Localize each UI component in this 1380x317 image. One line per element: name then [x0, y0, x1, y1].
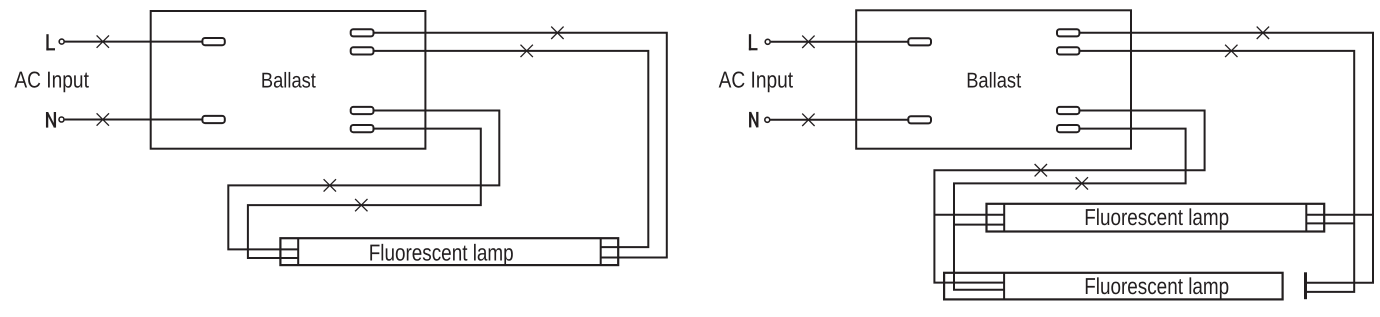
wire-nut X on wire B (left diagram) [521, 45, 533, 57]
node L (input terminal circle, left diagram) [59, 39, 64, 44]
wire D out4 down to lamp2 left pin2 (right diagram) [954, 129, 1186, 290]
fluorescent lamp tube (left diagram) [280, 238, 618, 265]
wire-nut X on wire D (left diagram) [355, 199, 367, 211]
wire-nut X on N wire (right diagram) [802, 114, 814, 126]
lamp right end-cap line (left diagram) [600, 238, 602, 265]
svg-text:Fluorescent lamp: Fluorescent lamp [1084, 204, 1229, 230]
terminal pill out3 (right diagram) [1057, 107, 1079, 114]
svg-text:Fluorescent lamp: Fluorescent lamp [369, 240, 514, 266]
terminal pill N input (left diagram) [202, 116, 224, 123]
svg-text:Ballast: Ballast [966, 69, 1021, 93]
wire D tap to lamp1 left pin2 (right diagram) [954, 224, 1004, 226]
wire A out1 down right side to lamp2 right pin1 (right diagram) [1079, 33, 1373, 283]
terminal pill L input (right diagram) [908, 38, 931, 45]
terminal pill N input (right diagram) [908, 116, 931, 123]
wire-nut X on wire B (right diagram) [1225, 45, 1237, 57]
fluorescent lamp 1 tube (right diagram) [987, 204, 1325, 232]
terminal pill out1 (right diagram) [1057, 29, 1079, 36]
wire L input (right diagram) [771, 41, 909, 43]
label L (right diagram) [749, 34, 758, 50]
wire B out2 to lamp right pin1 (left diagram) [374, 51, 649, 247]
wire-nut X on wire A (right diagram) [1257, 27, 1269, 39]
terminal pill out2 (right diagram) [1057, 47, 1079, 54]
wire C out3 to lamp left pin1 (left diagram) [228, 111, 499, 250]
terminal pill out4 (left diagram) [351, 125, 374, 132]
ballast box (left diagram) [151, 11, 426, 149]
wire-nut X on wire C (right diagram) [1035, 164, 1047, 176]
terminal pill out2 (left diagram) [351, 47, 374, 54]
lamp left end-cap line (left diagram) [297, 238, 299, 265]
svg-text:Fluorescent lamp: Fluorescent lamp [1084, 273, 1229, 299]
lamp1 left end-cap line (right diagram) [1003, 204, 1005, 232]
wire A tap to lamp1 right pin1 (right diagram) [1306, 214, 1373, 216]
wire B tap to lamp1 right pin2 (right diagram) [1306, 222, 1354, 224]
lamp2 right electrode bar (right diagram) [1304, 272, 1307, 299]
wire C out3 down left side to lamp2 left pin1 (right diagram) [934, 111, 1204, 283]
lamp2 left end-cap line (right diagram) [1003, 273, 1005, 300]
label N (right diagram) [750, 112, 757, 128]
wire-nut X on L wire (right diagram) [802, 36, 814, 48]
ballast box (right diagram) [856, 10, 1131, 148]
svg-text:AC Input: AC Input [719, 66, 794, 92]
node L (input terminal circle, right diagram) [765, 39, 770, 44]
wire B out2 down to lamp2 right pin2 (right diagram) [1079, 51, 1354, 292]
terminal pill out1 (left diagram) [351, 29, 374, 36]
terminal pill out4 (right diagram) [1057, 125, 1079, 132]
wire-nut X on wire A (left diagram) [551, 27, 563, 39]
svg-text:AC Input: AC Input [14, 66, 89, 92]
wire C tap to lamp1 left pin1 (right diagram) [934, 214, 1004, 216]
lamp1 right end-cap line (right diagram) [1305, 204, 1307, 232]
wire N input (right diagram) [770, 119, 908, 121]
terminal pill L input (left diagram) [202, 38, 224, 45]
node N (input terminal circle, right diagram) [765, 117, 770, 122]
label L (left diagram) [46, 34, 55, 50]
wire L input (left diagram) [65, 41, 203, 43]
wire-nut X on N wire (left diagram) [97, 113, 109, 125]
wire D out4 to lamp left pin2 (left diagram) [248, 129, 481, 258]
label N (left diagram) [47, 112, 55, 128]
wire-nut X on L wire (left diagram) [97, 35, 109, 47]
fluorescent lamp 2 tube (right diagram) [944, 273, 1283, 300]
terminal pill out3 (left diagram) [351, 107, 374, 114]
node N (input terminal circle, left diagram) [59, 117, 64, 122]
wire A out1 to lamp right pin2 (left diagram) [374, 33, 667, 258]
wire N input (left diagram) [65, 119, 203, 121]
svg-text:Ballast: Ballast [261, 69, 316, 93]
wire-nut X on wire D (right diagram) [1076, 177, 1088, 189]
wire-nut X on wire C (left diagram) [324, 179, 336, 191]
